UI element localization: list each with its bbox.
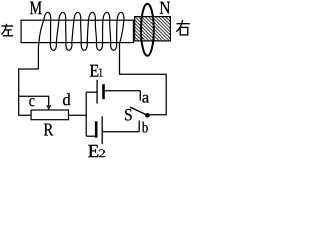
conducting ring around bar [141,4,154,56]
label M [30,1,42,14]
battery E2 (reversed polarity) [86,135,95,137]
label a [142,95,149,103]
label 左 (left) drawn as strokes [2,24,14,36]
label c [29,98,34,106]
label E2 [88,145,98,157]
hatched iron bar N [135,17,171,41]
label b [142,122,148,133]
wire: slider tap c-d with arrow onto rheostat [19,96,49,107]
battery E1 [86,91,96,93]
switch S blade [130,107,147,115]
label R [44,124,53,136]
wire: coil left end down-left-down to rheostat [19,69,39,115]
label S [125,109,132,121]
slider arrowhead [47,105,51,109]
coil L1 (solenoid winding around core) [38,12,124,69]
switch contact a [139,91,141,101]
label 右 (right) drawn as strokes [176,20,190,35]
switch pivot dot [145,113,150,118]
resistor R (rheostat box) [31,110,68,120]
wire: battery bus vertical [85,92,87,136]
switch contact b [138,121,140,132]
wire: rheostat right terminal to battery bus junction [69,114,86,116]
label E1 [90,65,99,77]
label d [63,93,71,105]
label N [160,2,170,14]
wire: switch pivot to right riser up to coil right end [120,43,167,115]
iron core (left rectangle of electromagnet) [21,20,133,42]
